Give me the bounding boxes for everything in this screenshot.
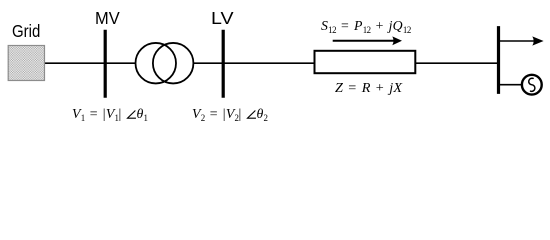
label MV <box>95 10 120 28</box>
label V1 = |V1| angle theta1 <box>72 108 147 122</box>
bus LV <box>222 30 225 98</box>
power flow arrow S12 <box>333 36 402 45</box>
bus MV <box>104 30 107 98</box>
transformer T1 <box>136 43 194 83</box>
label S12 = P12 + jQ12 <box>321 20 411 34</box>
load feeder arrow <box>500 36 544 45</box>
wire generator branch <box>500 84 522 86</box>
impedance Z branch rectangle <box>315 51 416 73</box>
generator G1 <box>522 75 542 95</box>
label Grid <box>12 23 40 41</box>
grid utility box <box>8 46 44 81</box>
bus right load bus <box>497 26 500 94</box>
label LV <box>211 10 234 28</box>
label Z = R + jX <box>335 82 402 96</box>
wire main line from Grid to right bus <box>44 62 499 64</box>
label V2 = |V2| angle theta2 <box>192 108 267 122</box>
